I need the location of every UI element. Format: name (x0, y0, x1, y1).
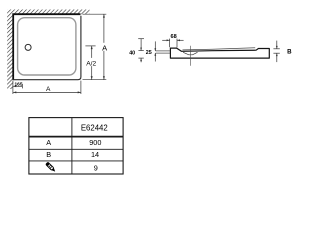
svg-text:B: B (46, 150, 51, 159)
svg-text:25: 25 (146, 50, 152, 56)
svg-text:9: 9 (94, 163, 98, 172)
svg-text:A: A (46, 138, 51, 147)
svg-text:14: 14 (91, 150, 99, 159)
svg-text:E62442: E62442 (81, 123, 108, 132)
svg-text:900: 900 (89, 138, 101, 147)
svg-text:68: 68 (170, 34, 176, 40)
svg-text:40: 40 (129, 51, 135, 57)
svg-text:A: A (46, 86, 51, 93)
svg-text:A/2: A/2 (86, 60, 96, 67)
svg-text:A: A (102, 44, 107, 53)
svg-text:B: B (287, 49, 292, 56)
